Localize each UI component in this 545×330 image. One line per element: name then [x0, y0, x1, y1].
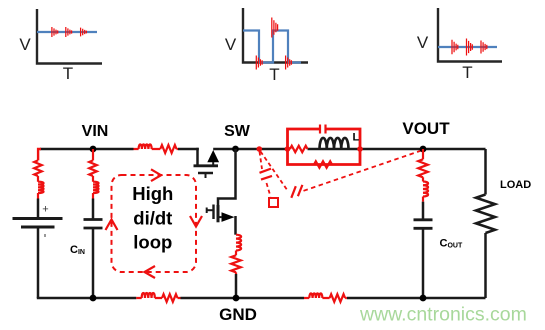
graph 2 axes: [243, 8, 308, 63]
capacitor COUT top plate: [414, 218, 433, 221]
transistor Q2 drain lead: [218, 149, 236, 206]
graph 2 ringing burst at first falling edge: [256, 56, 262, 70]
node SW parasitic red dot: [257, 146, 263, 152]
transistor Q2 channel bar: [217, 205, 220, 222]
svg-text:di/dt: di/dt: [133, 207, 172, 228]
capacitor CIN top plate: [84, 218, 103, 221]
capacitor CIN bottom plate: [84, 227, 103, 230]
parasitic capacitor (probe path): [260, 169, 273, 180]
transistor Q1 gate stub: [205, 173, 207, 178]
node CIN-GND junction dot: [90, 295, 97, 302]
transistor Q1 high-side FET left leg: [196, 148, 199, 166]
node VIN junction dot: [90, 146, 97, 153]
transistor Q1 gate bar: [198, 172, 213, 175]
inductor L coil: [320, 138, 349, 149]
battery V1 bottom plate: [21, 226, 55, 229]
parasitic resistor in series with L: [290, 146, 308, 152]
parasitic inductor Q2 source branch: [235, 251, 237, 256]
parasitic inductor battery branch: [37, 176, 39, 199]
wire COUT top lead: [422, 202, 425, 220]
parasitic capacitor across L (top of box): [320, 125, 326, 134]
capacitor COUT bottom plate: [414, 227, 433, 230]
loop arrow top (rightward): [151, 169, 161, 181]
svg-text:V: V: [225, 35, 237, 54]
wire CIN bottom lead: [92, 228, 95, 298]
parasitic inductor VOUT branch: [422, 177, 424, 201]
battery V1 top plate: [13, 217, 63, 220]
wire: CIN branch top: [92, 149, 94, 160]
transistor Q1 arrow (body diode): [207, 150, 219, 162]
svg-text:VOUT: VOUT: [402, 119, 450, 138]
parasitic inductor bottom rail left: [136, 297, 180, 299]
svg-text:loop: loop: [133, 232, 172, 253]
parasitic resistor zigzag on top rail: [160, 145, 176, 153]
svg-text:T: T: [462, 63, 472, 82]
node GND junction dot: [233, 295, 240, 302]
svg-text:www.cntronics.com: www.cntronics.com: [359, 304, 527, 326]
svg-text:LOAD: LOAD: [500, 179, 531, 191]
wire COUT bottom lead: [422, 228, 425, 298]
probe square: [269, 198, 278, 207]
wire: battery branch top: [38, 149, 41, 160]
wire: bottom ground rail: [37, 297, 486, 300]
graph 3 ringing burst 2: [467, 39, 473, 56]
wire CIN top lead: [92, 199, 95, 220]
parasitic resistor battery branch: [34, 160, 42, 176]
graph 2 signal trace (blue square wave): [243, 31, 301, 63]
graph 3 ringing burst 3: [481, 41, 487, 54]
svg-text:V: V: [19, 35, 31, 54]
graph 1 ringing burst 1: [52, 27, 58, 37]
parasitic capacitor (VOUT path): [291, 185, 302, 198]
svg-text:GND: GND: [219, 305, 257, 324]
graph 3 ringing burst 1: [452, 40, 458, 55]
svg-text:VIN: VIN: [82, 123, 109, 140]
transistor Q1 channel bar: [194, 164, 219, 167]
svg-text:V: V: [417, 33, 429, 52]
graph 3 signal trace (blue flat line): [438, 46, 497, 48]
wire battery bottom lead: [37, 227, 40, 298]
parasitic inductor CIN branch: [92, 176, 94, 199]
parasitic resistor bottom of box: [314, 161, 332, 167]
parasitic inductor bottom rail right: [304, 297, 347, 299]
node VOUT junction dot: [420, 146, 427, 153]
graph 1 ringing burst 2: [66, 27, 72, 37]
inductor model red box outline: [288, 129, 361, 165]
high di/dt loop dashed boundary: [112, 175, 197, 272]
parasitic resistor VOUT branch: [418, 159, 428, 177]
transistor Q2 gate lead: [207, 209, 214, 211]
transistor Q2 source arrow: [222, 212, 235, 222]
node box right junction red dot: [357, 146, 363, 152]
graph 1 ringing burst 3: [81, 28, 87, 37]
dashed wire capacitor to probe square: [267, 183, 271, 197]
wire VOUT branch top: [422, 149, 424, 159]
parasitic resistor bottom rail left: [162, 294, 178, 302]
wire battery top lead: [37, 199, 40, 219]
node SW junction dot: [232, 146, 239, 153]
loop arrow bottom (leftward): [145, 266, 156, 278]
wire: right edge down through load: [484, 149, 487, 298]
graph 1 axes: [37, 9, 102, 64]
svg-text:SW: SW: [224, 123, 251, 140]
parasitic resistor CIN branch: [89, 160, 97, 176]
transistor Q2 gate bar: [212, 205, 214, 220]
dashed parasitic path to probe: [260, 152, 263, 170]
battery minus mark: [44, 234, 46, 237]
dashed wire capacitor to VOUT node: [304, 151, 422, 191]
graph 2 ringing burst at rising edge: [272, 18, 278, 38]
node COUT-GND junction dot: [420, 295, 427, 302]
loop arrow left (upward): [106, 220, 118, 231]
loop arrow right (downward): [190, 216, 202, 227]
svg-text:T: T: [269, 65, 279, 84]
parasitic resistor bottom rail right: [330, 294, 346, 302]
node box left junction red dot: [285, 146, 291, 152]
parasitic resistor Q2 source branch: [231, 255, 241, 272]
svg-text:T: T: [63, 64, 73, 83]
graph 3 axes: [438, 8, 502, 62]
parasitic inductance coil on top rail: [134, 148, 179, 150]
graph 2 ringing burst at second falling edge: [286, 56, 292, 70]
resistor LOAD zigzag: [476, 195, 495, 234]
graph 1 signal trace (blue flat line): [37, 31, 97, 33]
wire Q2 source to GND: [235, 272, 237, 274]
svg-text:L: L: [353, 132, 360, 144]
dashed parasitic path to VOUT: [261, 152, 288, 191]
transistor Q2 source lead: [234, 216, 237, 235]
wire: top rail VIN to SW to VOUT: [40, 148, 486, 151]
svg-text:High: High: [132, 183, 173, 204]
svg-text:+: +: [42, 204, 48, 216]
